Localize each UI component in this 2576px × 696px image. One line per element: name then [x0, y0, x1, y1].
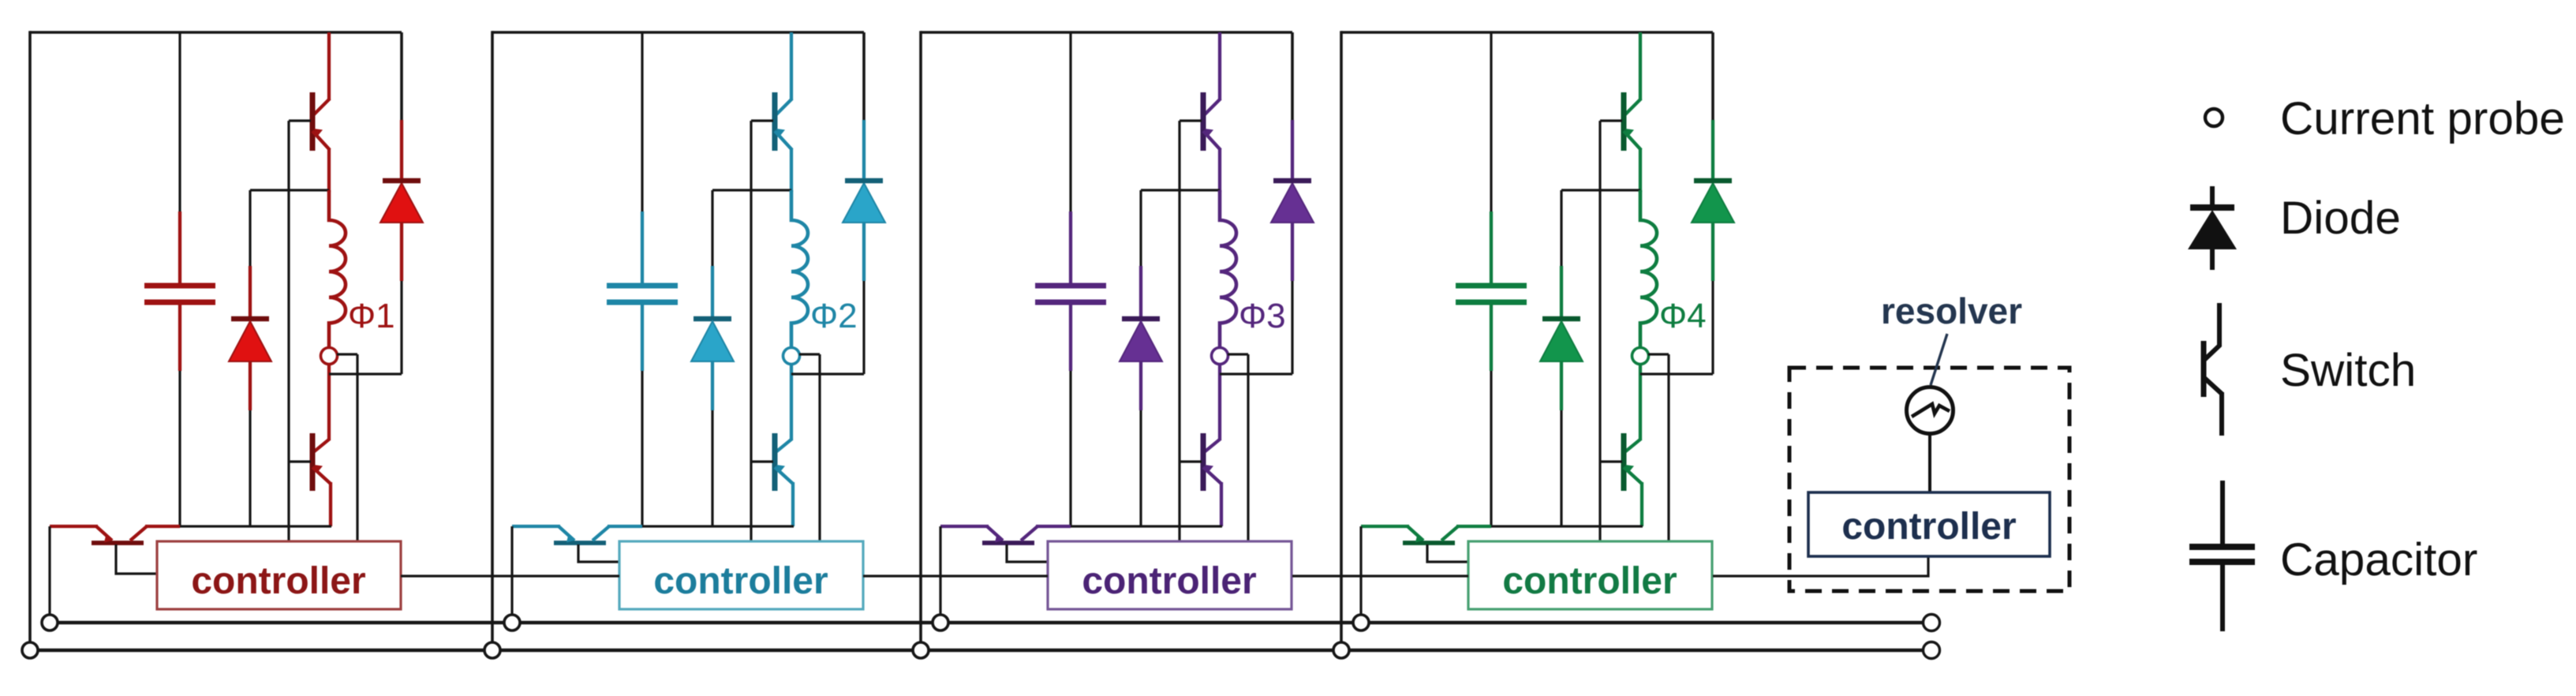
diode D3a (freewheel, lower-left) phase 3	[1120, 266, 1162, 410]
capacitor C2 (DC link) phase 2	[607, 211, 678, 371]
node C: wire from freewheel diode D3a to phase node	[1141, 189, 1220, 191]
inductor Phi4 phase winding	[1640, 190, 1657, 347]
svg-text:controller: controller	[191, 560, 365, 602]
resolver dashed enclosure box	[1789, 368, 2069, 591]
wire: gate stub upper switch phase 1	[289, 119, 311, 122]
node: lower bus junction phase 3	[913, 642, 929, 658]
resolver sensor symbol (circle with waveform)	[1907, 387, 1953, 434]
wire: bottom rail (black) phase 2	[642, 525, 794, 527]
wire: capacitor branch lower (black) phase 1	[178, 371, 181, 526]
node: lower bus junction phase 2	[484, 642, 500, 658]
wire: disconnect gate to controller phase 4	[1427, 544, 1468, 562]
node A2: wire to upper-right diode D1b phase 1	[329, 372, 402, 375]
diode D2b (upper-right, on right edge) phase 2	[843, 120, 885, 281]
node: lower bus junction phase 4	[1333, 642, 1349, 658]
switch S2a (upper) phase 2	[775, 32, 792, 192]
switch S1c (bus disconnect, horizontal) phase 1	[50, 526, 180, 543]
node B2: wire to upper-right diode D2b phase 2	[791, 372, 864, 375]
switch S3a (upper) phase 3	[1203, 32, 1221, 192]
current probe P4 phase 4	[1632, 348, 1649, 365]
wire: phase node below probe phase 4	[1639, 364, 1642, 440]
phase 3 frame: left edge wire (DC+ drop to lower bus)	[919, 31, 922, 650]
wire: probe signal vertical to controller phase 2	[818, 354, 821, 541]
wire: bus drop from disconnect switch to upper bus phase 3	[939, 526, 941, 623]
node C2: wire to upper-right diode D3b phase 3	[1220, 372, 1292, 375]
bus: lower DC+ bus wire	[30, 649, 1924, 653]
wire: probe signal stub phase 2	[799, 353, 820, 355]
diode D4b (upper-right, on right edge) phase 4	[1692, 120, 1734, 281]
wire: right edge upper (black) phase 2	[862, 32, 866, 120]
wire: probe signal stub phase 4	[1648, 353, 1669, 355]
wire: capacitor branch lower (black) phase 4	[1490, 371, 1492, 526]
wire: diode D3a anode lead to bottom rail phase 3	[1139, 410, 1142, 526]
switch S4b (lower) phase 4	[1624, 433, 1642, 526]
svg-text:Current probe: Current probe	[2280, 93, 2565, 144]
node: upper bus junction phase 2	[504, 615, 520, 631]
current probe P2 phase 2	[783, 348, 800, 365]
wire: diode D2a anode lead to bottom rail phase 2	[711, 410, 713, 526]
diode D4a (freewheel, lower-left) phase 4	[1540, 266, 1583, 410]
wire: resolver sensor to controller	[1928, 434, 1931, 492]
wire: right edge upper (black) phase 1	[400, 32, 403, 120]
wire: phase node below probe phase 1	[327, 364, 331, 440]
capacitor C1 (DC link) phase 1	[144, 211, 215, 371]
wire: diode D4a cathode lead (black) phase 4	[1560, 190, 1562, 266]
wire: phase node below probe phase 3	[1218, 364, 1221, 440]
wire: diode D3a cathode lead (black) phase 3	[1139, 190, 1142, 266]
svg-text:Φ3: Φ3	[1239, 297, 1286, 335]
svg-text:Φ4: Φ4	[1659, 297, 1707, 335]
node: upper bus right terminal	[1924, 615, 1940, 631]
wire: right edge upper (black) phase 4	[1711, 32, 1714, 120]
switch S4a (upper) phase 4	[1624, 32, 1641, 192]
wire: probe signal stub phase 3	[1228, 353, 1248, 355]
wire: bus drop from disconnect switch to upper bus phase 2	[510, 526, 513, 623]
wire: gate line vertical to controller phase 3	[1178, 121, 1180, 541]
controller U4 box phase 4	[1468, 541, 1712, 609]
switch S4c (bus disconnect, horizontal) phase 4	[1361, 526, 1491, 543]
node B: wire from freewheel diode D2a to phase node	[712, 189, 791, 191]
wire: bus drop from disconnect switch to upper bus phase 4	[1359, 526, 1362, 623]
current probe P3 phase 3	[1212, 348, 1228, 365]
svg-text:Φ1: Φ1	[348, 297, 395, 335]
controller U3 box phase 3	[1048, 541, 1292, 609]
wire: diode D1a anode lead to bottom rail phase 1	[249, 410, 251, 526]
capacitor C3 (DC link) phase 3	[1035, 211, 1106, 371]
svg-text:controller: controller	[1841, 506, 2016, 548]
wire: diode D4a anode lead to bottom rail phase 4	[1560, 410, 1562, 526]
phase 3 frame: top DC rail wire	[921, 31, 1292, 34]
wire: disconnect gate to controller phase 1	[116, 544, 157, 574]
wire: disconnect gate to controller phase 2	[578, 544, 619, 562]
diode D3b (upper-right, on right edge) phase 3	[1271, 120, 1314, 281]
wire: capacitor branch upper (black) phase 3	[1069, 32, 1071, 211]
wire: probe signal vertical to controller phase 1	[356, 354, 358, 541]
node: lower bus right terminal	[1924, 642, 1940, 659]
wire: gate line vertical to controller phase 2	[750, 121, 752, 541]
node D2: wire to upper-right diode D4b phase 4	[1640, 372, 1713, 375]
phase 2 frame: left edge wire (DC+ drop to lower bus)	[491, 31, 494, 650]
wire: diode D2a cathode lead (black) phase 2	[711, 190, 713, 266]
wire: capacitor branch lower (black) phase 3	[1069, 371, 1071, 526]
legend: capacitor symbol	[2189, 481, 2255, 631]
diode D1b (upper-right, on right edge) phase 1	[380, 120, 423, 281]
wire: gate stub upper switch phase 4	[1600, 119, 1622, 122]
switch S2c (bus disconnect, horizontal) phase 2	[512, 526, 642, 543]
diode D2a (freewheel, lower-left) phase 2	[691, 266, 734, 410]
svg-text:resolver: resolver	[1881, 290, 2022, 331]
legend: current probe symbol	[2205, 109, 2223, 126]
wire: diode D1a cathode lead (black) phase 1	[249, 190, 251, 266]
phase 1 frame: left edge wire (DC+ drop to lower bus)	[28, 31, 32, 650]
phase 4 frame: left edge wire (DC+ drop to lower bus)	[1340, 31, 1343, 650]
wire: controller link phase 2 to phase 3	[863, 574, 1048, 577]
wire: probe signal vertical to controller phase 4	[1667, 354, 1669, 541]
wire: controller link phase 4 to resolver controller	[1713, 557, 1928, 576]
switch S3c (bus disconnect, horizontal) phase 3	[940, 526, 1071, 543]
legend: switch symbol	[2204, 303, 2222, 436]
wire: bottom rail (black) phase 4	[1491, 525, 1643, 527]
controller U2 box phase 2	[619, 541, 863, 609]
node: upper bus junction phase 4	[1353, 615, 1369, 631]
wire: gate stub upper switch phase 3	[1180, 119, 1202, 122]
wire: gate stub lower switch phase 4	[1600, 460, 1622, 462]
svg-text:controller: controller	[653, 560, 828, 602]
wire: capacitor branch lower (black) phase 2	[641, 371, 643, 526]
wire: gate stub lower switch phase 3	[1180, 460, 1202, 462]
inductor Phi1 phase winding	[329, 190, 346, 347]
phase 4 frame: top DC rail wire	[1341, 31, 1713, 34]
controller U1 box phase 1	[157, 541, 401, 609]
legend: diode symbol	[2188, 186, 2237, 270]
wire: probe signal vertical to controller phase 3	[1247, 354, 1249, 541]
node: lower bus junction phase 1	[22, 642, 38, 658]
node A: wire from freewheel diode D1a to phase node	[250, 189, 329, 191]
wire: bus drop from disconnect switch to upper bus phase 1	[48, 526, 50, 623]
wire: probe signal stub phase 1	[337, 353, 357, 355]
wire: diode D4b anode lead / right edge lower (black) phase 4	[1711, 281, 1714, 374]
wire: diode D2b anode lead / right edge lower (black) phase 2	[862, 281, 865, 374]
wire: bottom rail (black) phase 1	[180, 525, 331, 527]
wire: gate stub lower switch phase 1	[289, 460, 311, 462]
wire: capacitor branch upper (black) phase 1	[178, 32, 181, 211]
diode D1a (freewheel, lower-left) phase 1	[229, 266, 271, 410]
inductor Phi3 phase winding	[1220, 190, 1236, 347]
node: upper bus junction phase 1	[42, 615, 58, 631]
switch S1b (lower) phase 1	[312, 433, 331, 526]
capacitor C4 (DC link) phase 4	[1456, 211, 1527, 371]
inductor Phi2 phase winding	[791, 190, 808, 347]
wire: diode D3b anode lead / right edge lower (black) phase 3	[1291, 281, 1293, 374]
svg-text:Switch: Switch	[2280, 345, 2416, 396]
svg-text:Capacitor: Capacitor	[2280, 534, 2477, 586]
wire: right edge upper (black) phase 3	[1291, 32, 1294, 120]
svg-text:controller: controller	[1502, 560, 1677, 602]
wire: gate stub lower switch phase 2	[751, 460, 773, 462]
current probe P1 phase 1	[321, 348, 338, 365]
phase 1 frame: top DC rail wire	[30, 31, 402, 34]
switch S3b (lower) phase 3	[1203, 433, 1221, 526]
wire: capacitor branch upper (black) phase 2	[641, 32, 643, 211]
wire: gate line vertical to controller phase 4	[1598, 121, 1601, 541]
controller U5 (resolver) box	[1808, 492, 2050, 556]
node D: wire from freewheel diode D4a to phase node	[1561, 189, 1640, 191]
wire: disconnect gate to controller phase 3	[1007, 544, 1048, 562]
wire: gate stub upper switch phase 2	[751, 119, 773, 122]
node: upper bus junction phase 3	[933, 615, 948, 631]
svg-text:Φ2: Φ2	[810, 297, 858, 335]
bus: upper DC- bus wire	[50, 621, 1924, 625]
wire: bottom rail (black) phase 3	[1071, 525, 1222, 527]
phase 2 frame: top DC rail wire	[492, 31, 864, 34]
wire: diode D1b anode lead / right edge lower (black) phase 1	[400, 281, 402, 374]
svg-text:controller: controller	[1082, 560, 1256, 602]
switch S1a (upper) phase 1	[312, 32, 330, 192]
wire: gate line vertical to controller phase 1	[287, 121, 290, 541]
wire: capacitor branch upper (black) phase 4	[1490, 32, 1492, 211]
wire: controller link phase 3 to phase 4	[1292, 574, 1468, 577]
svg-text:Diode: Diode	[2280, 193, 2401, 244]
wire: controller link phase 1 to phase 2	[401, 574, 619, 577]
wire: phase node below probe phase 2	[790, 364, 793, 440]
switch S2b (lower) phase 2	[775, 433, 793, 526]
wire: resolver callout line	[1931, 334, 1947, 385]
